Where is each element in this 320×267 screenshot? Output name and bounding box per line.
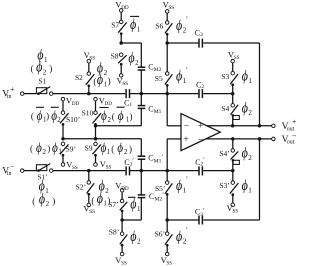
svg-text:2: 2 xyxy=(183,237,187,245)
svg-text:S2’: S2’ xyxy=(76,183,86,192)
clock label phi2 (phi1) for S2' xyxy=(91,178,110,207)
svg-text:’: ’ xyxy=(132,158,134,164)
svg-text:’: ’ xyxy=(203,158,205,164)
node bottom wire / CM' caps xyxy=(140,169,144,173)
svg-text:1: 1 xyxy=(58,148,62,156)
svg-text:ϕ: ϕ xyxy=(101,141,107,156)
svg-text:C: C xyxy=(149,192,154,201)
svg-text:ϕ: ϕ xyxy=(176,229,182,245)
svg-text:ϕ: ϕ xyxy=(242,69,248,85)
node M2/S9' xyxy=(61,137,65,141)
switch S9' with VSS terminal xyxy=(60,142,78,171)
node M2/S9 xyxy=(94,137,98,141)
switch S8 with VSS terminal xyxy=(111,51,129,87)
wire C3' feedback: junction to C3' xyxy=(167,219,199,221)
switch S4' xyxy=(219,139,239,171)
svg-text:S3’: S3’ xyxy=(219,181,229,190)
svg-text:S8’: S8’ xyxy=(109,228,119,237)
input terminal Vin+ xyxy=(2,85,24,100)
svg-text:S4’: S4’ xyxy=(219,149,229,158)
svg-text:ϕ: ϕ xyxy=(97,72,103,88)
svg-text:SS: SS xyxy=(89,209,95,215)
switch S4 xyxy=(221,94,239,126)
op-amp U1 xyxy=(181,114,220,151)
svg-text:): ) xyxy=(47,144,50,154)
svg-text:): ) xyxy=(52,196,55,206)
node S3/S4/C2 junction xyxy=(231,92,235,96)
switch S9 with VSS terminal xyxy=(85,142,112,170)
svg-text:1: 1 xyxy=(44,56,48,64)
wire top main: C1 to C2 xyxy=(130,93,199,95)
svg-text:1: 1 xyxy=(107,148,111,156)
capacitor CM2 xyxy=(138,63,162,74)
capacitor CM1' xyxy=(138,139,164,171)
svg-text:S6’: S6’ xyxy=(155,229,165,238)
svg-text:in: in xyxy=(7,171,12,177)
node S3'/S4' junction xyxy=(231,169,235,173)
svg-text:M1: M1 xyxy=(154,109,162,115)
wire M1 line (CM1 bottom to switch columns) xyxy=(96,125,142,127)
svg-text:−: − xyxy=(292,131,297,140)
switch S5 xyxy=(155,43,173,94)
node top wire / CM caps xyxy=(140,92,144,96)
svg-text:ϕ: ϕ xyxy=(97,191,103,207)
svg-text:1: 1 xyxy=(137,26,141,34)
svg-text:C: C xyxy=(148,104,153,113)
clock label phi1 (phi2) for S9 xyxy=(101,141,133,156)
svg-text:C: C xyxy=(148,154,153,163)
svg-text:ϕ: ϕ xyxy=(37,109,43,124)
capacitor C1' xyxy=(124,158,134,176)
wire S7/S8 junction to CM2 xyxy=(121,43,141,67)
svg-text:−: − xyxy=(184,121,189,131)
node top wire / S2 xyxy=(87,92,91,96)
svg-text:ϕ: ϕ xyxy=(52,141,58,156)
svg-text:(: ( xyxy=(32,196,35,206)
svg-text:M2: M2 xyxy=(154,67,162,73)
svg-text:in: in xyxy=(7,94,12,100)
clock label phi2 (phi1) for S2 xyxy=(93,60,110,88)
switch S7' with VDD terminal xyxy=(108,180,129,220)
svg-text:S1: S1 xyxy=(38,76,46,85)
svg-text:S2: S2 xyxy=(75,73,83,82)
svg-text:S6: S6 xyxy=(155,22,163,31)
switch S6' with VSS terminal xyxy=(155,220,173,266)
wire Vin- to S1' xyxy=(24,170,37,172)
svg-text:’: ’ xyxy=(186,176,188,184)
svg-text:ϕ: ϕ xyxy=(130,17,136,33)
svg-text:S4: S4 xyxy=(221,104,229,113)
capacitor C3 xyxy=(195,29,203,48)
svg-text:1: 1 xyxy=(137,205,141,213)
svg-text:(: ( xyxy=(31,111,34,121)
svg-text:1: 1 xyxy=(183,186,187,194)
svg-text:DD: DD xyxy=(121,186,129,192)
svg-text:ϕ: ϕ xyxy=(176,18,182,34)
svg-text:ϕ: ϕ xyxy=(242,101,248,117)
svg-text:(: ( xyxy=(111,144,114,154)
switch S5' xyxy=(155,171,172,220)
wire Vin+ to S1 xyxy=(24,93,37,95)
node S7/S8 junction xyxy=(119,41,123,45)
svg-text:’: ’ xyxy=(186,66,188,74)
wire C3 feedback: junction to C3 xyxy=(167,42,199,44)
wire M1 to M2 columns xyxy=(63,124,96,138)
node bottom wire / S2' xyxy=(87,169,91,173)
clock label phi1' for S5' xyxy=(176,176,188,195)
wire CM2' to S7'/S8' junction xyxy=(122,219,141,221)
svg-text:3: 3 xyxy=(200,32,203,38)
svg-text:ϕ: ϕ xyxy=(36,141,42,156)
wire bottom main: C2' to S3'/S4' xyxy=(203,170,233,172)
switch S6 with VSS terminal xyxy=(155,0,174,43)
node Vout-/S4' xyxy=(231,137,235,141)
node M1/S10 xyxy=(94,124,98,128)
svg-text:): ) xyxy=(129,144,132,154)
switch S2' with VSS terminal xyxy=(76,171,95,215)
svg-text:(: ( xyxy=(31,64,34,74)
svg-text:’: ’ xyxy=(186,226,188,234)
svg-text:2: 2 xyxy=(248,109,252,117)
svg-text:2: 2 xyxy=(43,148,47,156)
svg-text:2: 2 xyxy=(105,187,109,195)
wire M2 line (CM1' top to switch columns) xyxy=(63,138,141,140)
svg-text:(: ( xyxy=(30,144,33,154)
clock label (phi2) phi1 for S9' xyxy=(30,141,62,156)
switch S7 with VDD terminal xyxy=(111,0,129,43)
clock label phi1-bar for S7 xyxy=(130,16,141,33)
svg-text:DD: DD xyxy=(105,101,113,107)
clock label phi1' for S5 xyxy=(176,66,188,85)
switch S3' with VSS terminal xyxy=(219,171,238,215)
svg-text:S8: S8 xyxy=(111,51,119,60)
wire Vout- line xyxy=(206,138,272,140)
svg-text:2: 2 xyxy=(135,59,139,67)
svg-text:2: 2 xyxy=(248,154,252,162)
svg-text:2: 2 xyxy=(124,148,128,156)
output terminal Vout- xyxy=(272,131,297,146)
node Vout+/S4 xyxy=(231,124,235,128)
svg-text:’: ’ xyxy=(161,155,163,161)
switch S1' xyxy=(36,164,53,182)
clock label phi1-bar for S7' xyxy=(128,196,141,213)
svg-text:ϕ: ϕ xyxy=(51,109,57,124)
capacitor CM1 xyxy=(138,94,162,126)
clock label phi1 for S3' xyxy=(242,178,253,195)
svg-text:S9: S9 xyxy=(85,144,93,153)
svg-text:C: C xyxy=(148,63,153,72)
svg-text:2: 2 xyxy=(46,200,50,208)
wire Vout+ line xyxy=(207,125,272,127)
output terminal Vout+ xyxy=(272,118,297,133)
svg-text:): ) xyxy=(49,64,52,74)
svg-text:2: 2 xyxy=(183,26,187,34)
svg-text:ϕ: ϕ xyxy=(176,69,182,85)
node S5'/S6'/C3' junction xyxy=(165,218,169,222)
clock label (phi1-bar) phi2-bar for S10' xyxy=(31,107,61,124)
svg-text:’: ’ xyxy=(162,193,164,199)
svg-text:S7’: S7’ xyxy=(108,200,118,209)
wire C3' to Vout- line xyxy=(203,139,259,220)
svg-text:ϕ: ϕ xyxy=(242,178,248,194)
clock label phi2' for S6 xyxy=(176,15,188,34)
switch S3 with VSS terminal xyxy=(221,50,239,94)
svg-text:ϕ: ϕ xyxy=(130,229,136,245)
svg-text:1: 1 xyxy=(248,77,252,85)
svg-text:1: 1 xyxy=(183,77,187,85)
clock label phi2 for S8 xyxy=(128,50,139,67)
switch S1 xyxy=(36,76,53,95)
svg-text:’: ’ xyxy=(186,15,188,23)
svg-text:ϕ: ϕ xyxy=(36,60,42,76)
wire top main: S1 to C1 xyxy=(53,93,125,95)
node Vout-/C3' xyxy=(258,137,262,141)
svg-text:SS: SS xyxy=(166,260,172,266)
svg-text:+: + xyxy=(10,85,15,94)
svg-text:S3: S3 xyxy=(221,72,229,81)
svg-text:DD: DD xyxy=(72,101,80,107)
svg-text:S10’: S10’ xyxy=(66,115,80,124)
svg-text:S7: S7 xyxy=(111,20,119,29)
svg-text:S5’: S5’ xyxy=(155,184,165,193)
node S7'/S8' junction xyxy=(120,218,124,222)
wire top main: C2 to S3/S4 xyxy=(203,93,232,95)
svg-text:ϕ: ϕ xyxy=(118,109,124,124)
svg-text:1: 1 xyxy=(129,102,132,108)
clock label phi1 (phi2) for S1' xyxy=(32,179,55,209)
svg-text:’: ’ xyxy=(203,208,205,214)
svg-text:ϕ: ϕ xyxy=(242,146,248,162)
clock label phi2-bar (phi1-bar) for S10 xyxy=(99,107,132,124)
node Vout+/C3 xyxy=(258,124,262,128)
capacitor C2' xyxy=(195,158,205,176)
node bottom wire / S5' xyxy=(165,169,169,173)
svg-text:ϕ: ϕ xyxy=(117,141,123,156)
svg-text:S10: S10 xyxy=(82,108,94,117)
svg-text:ϕ: ϕ xyxy=(128,50,134,66)
svg-text:+: + xyxy=(183,135,188,145)
switch S10 with VDD terminal xyxy=(82,95,113,125)
wire non-inverting input (bottom main to op-amp) xyxy=(167,139,180,171)
svg-text:2: 2 xyxy=(201,84,204,90)
svg-text:2: 2 xyxy=(43,68,47,76)
svg-text:SS: SS xyxy=(106,165,112,171)
wire bottom main: C1' to C2' xyxy=(130,170,199,172)
svg-text:SS: SS xyxy=(168,5,174,11)
clock label phi2 for S4 xyxy=(242,101,253,118)
svg-text:SS: SS xyxy=(122,81,128,87)
svg-text:2: 2 xyxy=(57,116,61,124)
svg-text:): ) xyxy=(46,111,49,121)
svg-text:1: 1 xyxy=(45,187,49,195)
svg-text:): ) xyxy=(108,76,111,86)
capacitor C1 xyxy=(124,89,132,108)
clock label phi1 (phi2) for S1 xyxy=(31,48,53,77)
wire inverting input (top main to op-amp) xyxy=(167,94,180,126)
wire bottom main: S1' to C1' xyxy=(53,170,125,172)
svg-text:+: + xyxy=(292,118,297,127)
capacitor CM2' xyxy=(138,171,164,220)
svg-text:2: 2 xyxy=(137,238,141,246)
wire CM2 to top main wire xyxy=(140,70,142,94)
clock label phi2 for S4' xyxy=(242,146,253,163)
svg-text:S5: S5 xyxy=(155,74,163,83)
svg-text:out: out xyxy=(287,140,295,146)
switch S2 with VSS terminal xyxy=(75,50,95,94)
svg-text:−: − xyxy=(198,135,203,145)
svg-text:ϕ: ϕ xyxy=(176,178,182,194)
svg-text:(: ( xyxy=(112,112,115,122)
node top wire / S5 xyxy=(165,92,169,96)
svg-text:): ) xyxy=(130,112,133,122)
node S5/S6/C3 junction xyxy=(165,41,169,45)
clock label phi2 for S8' xyxy=(130,229,141,246)
svg-text:SS: SS xyxy=(121,260,127,266)
svg-text:ϕ: ϕ xyxy=(101,109,107,124)
svg-text:1: 1 xyxy=(248,186,252,194)
wire C3 to Vout+ line xyxy=(203,43,259,126)
svg-text:ϕ: ϕ xyxy=(130,196,136,212)
clock label phi1 for S3 xyxy=(242,69,253,86)
svg-text:(: ( xyxy=(91,195,94,205)
input terminal Vin- xyxy=(2,162,24,177)
switch S8' with VSS terminal xyxy=(109,220,128,266)
capacitor C2 xyxy=(196,81,204,98)
capacitor C3' xyxy=(195,207,205,224)
svg-text:+: + xyxy=(198,122,203,132)
clock label phi2' for S6' xyxy=(176,226,188,245)
svg-text:SS: SS xyxy=(232,209,238,215)
svg-text:ϕ: ϕ xyxy=(39,191,45,207)
switch S10' with VDD terminal xyxy=(60,95,80,125)
svg-text:−: − xyxy=(10,162,15,171)
